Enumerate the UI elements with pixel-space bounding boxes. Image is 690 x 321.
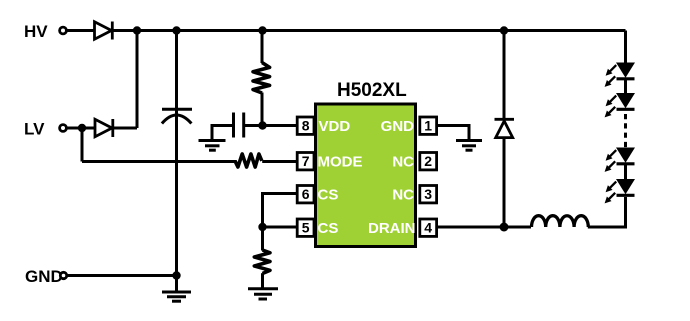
inductor L1 <box>532 216 589 227</box>
pin name NC pin3 <box>392 187 414 204</box>
wire D2 to HV node <box>114 127 137 130</box>
wire LV to R2 <box>82 160 237 163</box>
wire D1 to node <box>114 29 138 32</box>
wire D3 bottom segment <box>503 137 506 227</box>
wire rail to LED1 <box>624 31 627 64</box>
label H502XL <box>337 80 407 101</box>
node C1 top <box>172 26 180 34</box>
capacitor C1 <box>162 31 192 276</box>
wire pin 5 to CS node <box>263 226 299 229</box>
svg-text:CS: CS <box>318 220 339 237</box>
svg-text:CS: CS <box>318 187 339 204</box>
pin 8 box <box>297 117 314 134</box>
LED D7 <box>605 179 635 203</box>
wire GND rail <box>68 274 177 277</box>
LED D5 <box>605 93 635 117</box>
pin 7 box <box>297 153 314 170</box>
pin 2 box <box>420 153 437 170</box>
label GND <box>25 267 63 286</box>
wire to pin 8 <box>263 124 298 127</box>
diode D3 <box>495 119 515 137</box>
LED D6 <box>605 148 635 172</box>
wire pin 1 to ground <box>436 126 470 140</box>
svg-text:8: 8 <box>302 118 310 134</box>
svg-text:NC: NC <box>392 154 414 171</box>
wire pin 6 to CS node <box>263 194 299 228</box>
pin 3 box <box>420 186 437 203</box>
svg-text:1: 1 <box>424 118 432 134</box>
svg-text:MODE: MODE <box>318 154 363 171</box>
pin 5 box <box>297 219 314 236</box>
wire HV node down to LV diode <box>136 31 139 129</box>
svg-text:3: 3 <box>424 186 432 202</box>
node LV junction <box>78 124 86 132</box>
wire LED3-LED4 <box>624 164 627 180</box>
svg-text:6: 6 <box>302 186 310 202</box>
wire D3 top segment <box>503 31 506 120</box>
diode D1 <box>95 22 113 40</box>
node GND junction <box>172 271 180 279</box>
capacitor C2 <box>212 113 263 140</box>
pin name CS pin5 <box>318 220 339 237</box>
svg-text:GND: GND <box>25 267 63 286</box>
pin name GND <box>381 118 415 135</box>
wire HV top rail <box>137 29 626 32</box>
pin name DRAIN <box>368 220 416 237</box>
diode D2 <box>95 119 113 137</box>
svg-text:LV: LV <box>24 120 45 139</box>
pin name NC pin2 <box>392 154 414 171</box>
svg-text:VDD: VDD <box>319 118 351 135</box>
terminal HV <box>60 27 67 34</box>
svg-text:7: 7 <box>302 153 310 169</box>
resistor R2 <box>235 154 262 167</box>
label HV <box>24 22 48 41</box>
wire LV terminal to D2 <box>68 127 96 130</box>
resistor R3 <box>254 227 270 289</box>
svg-text:HV: HV <box>24 22 48 41</box>
LED D4 <box>605 63 635 87</box>
resistor R1 <box>253 31 270 126</box>
node CS junction <box>258 223 266 231</box>
label LV <box>24 120 45 139</box>
pin 6 box <box>297 186 314 203</box>
IC U1 H502XL body <box>316 104 416 247</box>
wire R2 to pin 7 <box>262 160 297 163</box>
wire LED1-LED2 <box>624 79 627 94</box>
svg-text:4: 4 <box>424 220 432 236</box>
node pin 8 junction <box>258 121 266 129</box>
svg-text:NC: NC <box>392 187 414 204</box>
svg-text:2: 2 <box>424 153 432 169</box>
terminal GND <box>60 272 66 278</box>
wire inductor to LED chain <box>588 197 626 227</box>
ground pin 1 <box>456 141 482 151</box>
ground main <box>162 276 191 302</box>
ground R3 <box>248 289 278 299</box>
pin name CS pin6 <box>318 187 339 204</box>
svg-text:H502XL: H502XL <box>337 80 407 101</box>
node drain junction <box>500 223 509 232</box>
pin name VDD <box>319 118 351 135</box>
node D3 top <box>500 26 508 34</box>
svg-text:5: 5 <box>302 220 310 236</box>
pin 4 box <box>420 219 437 236</box>
node R1 top <box>258 26 266 34</box>
svg-text:DRAIN: DRAIN <box>368 220 416 237</box>
wire DRAIN to node <box>436 226 532 229</box>
pin name MODE <box>318 154 363 171</box>
wire dashed LED chain continuation <box>624 112 627 148</box>
wire LV node down <box>81 128 84 162</box>
terminal LV <box>60 125 67 132</box>
ground C2 <box>199 141 226 151</box>
node HV rail junction <box>133 26 141 34</box>
wire HV terminal to D1 <box>68 29 95 32</box>
pin 1 box <box>420 117 437 134</box>
svg-text:GND: GND <box>381 118 415 135</box>
